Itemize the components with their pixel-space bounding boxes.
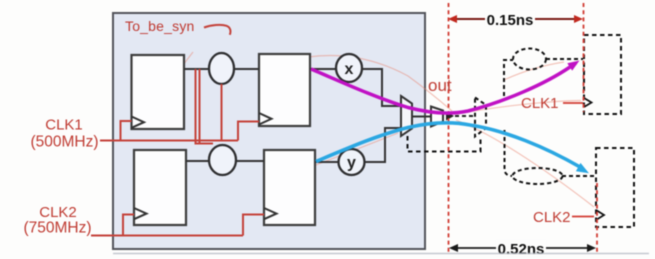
svg-text:CLK2: CLK2 [39,204,77,221]
svg-text:0.15ns: 0.15ns [487,12,534,29]
svg-text:(750MHz): (750MHz) [23,220,91,237]
svg-text:CLK1: CLK1 [45,117,83,134]
svg-text:y: y [347,155,356,172]
svg-text:0.52ns: 0.52ns [498,241,545,258]
svg-text:CLK2: CLK2 [533,209,571,226]
svg-text:To_be_syn: To_be_syn [125,18,195,34]
svg-text:out: out [428,76,452,95]
svg-text:CLK1: CLK1 [521,95,559,112]
svg-text:(500MHz): (500MHz) [30,134,98,151]
svg-text:x: x [345,61,354,78]
